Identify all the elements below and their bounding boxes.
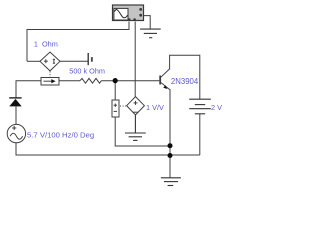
svg-text:2 V: 2 V <box>211 103 222 112</box>
svg-text:500 k Ohm: 500 k Ohm <box>69 67 105 76</box>
svg-text:1 V/V: 1 V/V <box>146 103 164 112</box>
svg-text:1 Ohm: 1 Ohm <box>34 40 58 49</box>
svg-text:2N3904: 2N3904 <box>171 77 199 86</box>
svg-text:5.7 V/100 Hz/0 Deg: 5.7 V/100 Hz/0 Deg <box>27 130 94 139</box>
